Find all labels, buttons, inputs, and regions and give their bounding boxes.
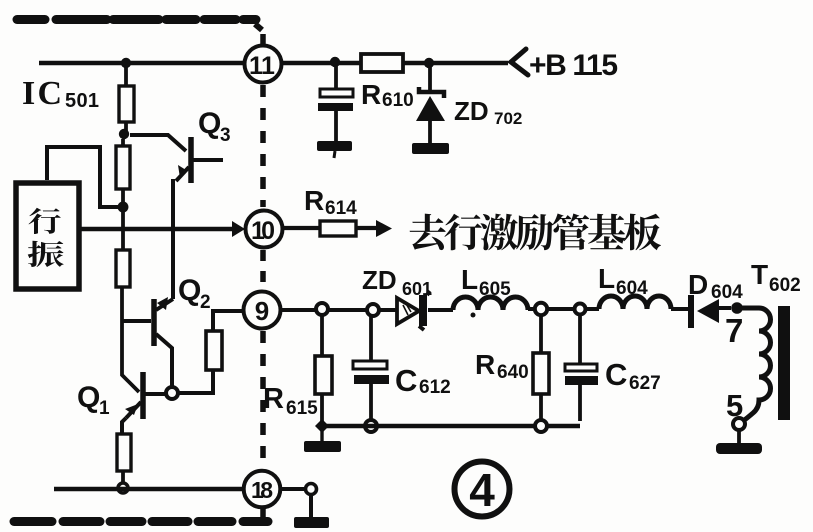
junction T602 pin 5 bbox=[733, 418, 745, 430]
label qu-hang-jili-guan-jiban char 2 bbox=[444, 214, 481, 251]
svg-text:640: 640 bbox=[497, 362, 529, 383]
svg-text:702: 702 bbox=[494, 109, 522, 128]
svg-text:L: L bbox=[598, 263, 615, 294]
svg-text:Q: Q bbox=[77, 381, 100, 414]
label qu-hang-jili-guan-jiban char 3 bbox=[480, 214, 518, 251]
resistor (middle of chain) bbox=[121, 139, 125, 146]
box: line oscillator (hang zhen) bbox=[16, 183, 79, 289]
node pin 10 of IC501 bbox=[246, 211, 283, 248]
label qu-hang-jili-guan-jiban char 6 bbox=[588, 214, 625, 250]
wire R614 to arrow bbox=[356, 226, 378, 230]
svg-text:L: L bbox=[461, 264, 478, 295]
junction C612 bbox=[367, 304, 379, 316]
wire: pin 9 to ZD601 bbox=[281, 308, 397, 312]
capacitor C627 bbox=[578, 315, 582, 364]
svg-text:+B 115: +B 115 bbox=[529, 49, 618, 82]
svg-text:7: 7 bbox=[725, 312, 743, 349]
wire: pin11 rail down to resistor chain bbox=[124, 63, 128, 86]
svg-text:D: D bbox=[688, 269, 708, 300]
svg-text:9: 9 bbox=[255, 296, 269, 326]
connector arrow +B 115 input bbox=[511, 49, 528, 75]
svg-text:602: 602 bbox=[769, 275, 801, 296]
resistor R610 bbox=[361, 54, 403, 72]
wire junction to resistor to pin 9 bbox=[178, 370, 213, 393]
wire + junction to Q3 base bbox=[124, 122, 128, 131]
junction R640 bottom rail bbox=[535, 420, 547, 432]
svg-text:501: 501 bbox=[65, 90, 99, 112]
resistor (Q1/Q2 collector load to pin 9) bbox=[206, 331, 222, 370]
transformer T602 winding bbox=[742, 308, 771, 421]
svg-text:C: C bbox=[605, 357, 627, 392]
wire: bottom rail R615 to C627 bbox=[322, 424, 580, 428]
inductor L605 bbox=[453, 297, 528, 310]
wire: oscillator output to pin 10 with arrow bbox=[79, 227, 234, 231]
svg-text:T: T bbox=[751, 259, 768, 290]
wire: chain down to Q2 base and Q1 base bbox=[122, 287, 139, 392]
capacitor C612 bbox=[369, 316, 373, 361]
ground under T602 pin 5 bbox=[737, 430, 741, 448]
svg-text:1: 1 bbox=[261, 52, 275, 80]
capacitor (+B filter) bbox=[334, 63, 338, 89]
ground under ZD702 bbox=[412, 143, 449, 154]
svg-text:604: 604 bbox=[711, 282, 743, 303]
junction T602 pin 7 bbox=[731, 302, 743, 314]
junction: filter capacitor branch on +B rail bbox=[330, 57, 340, 67]
junction R640 / L604 bbox=[535, 303, 547, 315]
resistor (IC501 bias, upper) bbox=[119, 86, 134, 122]
svg-text:18: 18 bbox=[251, 477, 273, 503]
resistor R615 bbox=[320, 315, 324, 356]
ground under +B filter cap bbox=[317, 141, 352, 151]
zener diode ZD702 bbox=[428, 63, 432, 91]
wire: +B rail from left edge through pin 11 to +B115 arrow bbox=[39, 61, 508, 65]
wire junction to L604 bbox=[547, 307, 599, 311]
svg-text:Q: Q bbox=[198, 107, 221, 140]
label qu-hang-jili-guan-jiban char 1 bbox=[410, 214, 446, 250]
svg-text:R: R bbox=[263, 383, 284, 415]
svg-text:627: 627 bbox=[629, 373, 661, 394]
svg-text:R: R bbox=[304, 185, 324, 216]
svg-text:615: 615 bbox=[286, 398, 318, 419]
ground right of pin 18 bbox=[294, 517, 329, 528]
svg-text:C: C bbox=[395, 363, 417, 398]
wire ZD601 to L605 bbox=[428, 308, 453, 312]
resistor below Q1 emitter bbox=[117, 434, 131, 471]
junction: IC501 resistor chain on +B rail bbox=[121, 58, 131, 68]
svg-text:1: 1 bbox=[99, 398, 110, 419]
wire from junction to oscillator box top bbox=[47, 147, 123, 207]
ground under R615 bbox=[320, 430, 323, 442]
label zhen (oscillator) bbox=[28, 241, 64, 267]
resistor (lower of chain) bbox=[121, 207, 125, 250]
transistor Q2 bbox=[122, 319, 151, 323]
svg-text:614: 614 bbox=[325, 198, 357, 219]
svg-text:Q: Q bbox=[178, 274, 201, 307]
svg-text:IC: IC bbox=[22, 75, 62, 112]
wire pin 18 to ground bbox=[281, 487, 306, 491]
transformer core bar bbox=[778, 306, 790, 420]
label qu-hang-jili-guan-jiban char 7 bbox=[624, 214, 661, 251]
svg-text:4: 4 bbox=[469, 464, 495, 516]
wire: ground rail to pin 18 bbox=[54, 487, 243, 491]
svg-text:601: 601 bbox=[402, 279, 432, 299]
label qu-hang-jili-guan-jiban char 4 bbox=[516, 214, 553, 250]
zener diode ZD601 bbox=[397, 298, 419, 324]
svg-text:R: R bbox=[475, 349, 495, 380]
node pin 11 of IC501 bbox=[245, 46, 282, 83]
junction C627 bbox=[575, 304, 586, 315]
svg-text:605: 605 bbox=[479, 279, 511, 300]
node pin 9 of IC501 bbox=[244, 292, 281, 329]
label hang (line) bbox=[29, 208, 61, 234]
dashed IC edge line between pins 11-10-9-18 bbox=[260, 85, 266, 207]
junction: oscillator box feed bbox=[118, 202, 129, 213]
svg-text:ZD: ZD bbox=[362, 265, 397, 295]
svg-text:5: 5 bbox=[726, 388, 743, 423]
svg-text:2: 2 bbox=[200, 292, 211, 313]
svg-text:3: 3 bbox=[220, 125, 231, 146]
junction Q1 collector / Q2 emitter bbox=[166, 387, 178, 399]
inductor L604 bbox=[599, 296, 671, 309]
junction on bottom rail bbox=[118, 483, 128, 493]
label qu-hang-jili-guan-jiban char 5 bbox=[552, 213, 589, 250]
svg-text:612: 612 bbox=[419, 377, 451, 398]
svg-text:10: 10 bbox=[251, 217, 275, 245]
resistor R614 bbox=[320, 221, 356, 236]
junction bottom rail at R615 bbox=[315, 419, 329, 433]
transistor Q3 bbox=[130, 135, 186, 151]
junction R615 bbox=[316, 303, 328, 315]
figure number 4 (circled) bbox=[455, 462, 510, 517]
svg-text:ZD: ZD bbox=[454, 96, 489, 126]
node pin 18 of IC501 bbox=[244, 471, 281, 508]
resistor R640 bbox=[539, 315, 543, 353]
junction C612 bottom rail bbox=[365, 420, 377, 432]
wire pin10 to R614 bbox=[283, 226, 320, 230]
diode D604 bbox=[688, 295, 694, 328]
svg-text:604: 604 bbox=[616, 278, 648, 299]
svg-text:610: 610 bbox=[382, 90, 414, 111]
svg-text:R: R bbox=[361, 79, 381, 110]
junction: ZD702 branch on +B rail bbox=[424, 58, 434, 68]
transistor Q1 bbox=[140, 372, 146, 419]
